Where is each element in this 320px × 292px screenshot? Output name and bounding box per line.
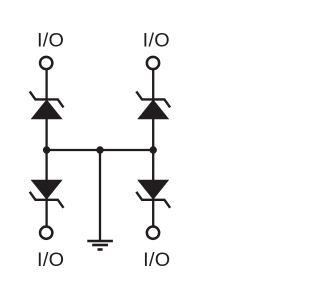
wire center vertical to ground bbox=[99, 150, 101, 241]
wire middle horizontal bus bbox=[47, 149, 154, 151]
zener diode D2 top-right bbox=[136, 91, 170, 119]
ground bbox=[87, 241, 113, 250]
svg-text:I/O: I/O bbox=[143, 29, 170, 51]
junction dot right bbox=[150, 146, 157, 153]
wire bottom-left vertical bbox=[45, 150, 47, 226]
node I/O label bottom-right bbox=[143, 249, 170, 271]
zener diode D4 bottom-right bbox=[136, 180, 170, 208]
wire bottom-right vertical bbox=[152, 150, 154, 226]
svg-text:I/O: I/O bbox=[37, 29, 64, 51]
node I/O label top-right bbox=[143, 29, 170, 51]
wire top-left vertical bbox=[45, 70, 47, 150]
terminal circle top-left bbox=[40, 57, 52, 69]
wire top-right vertical bbox=[152, 70, 154, 150]
node I/O label bottom-left bbox=[37, 249, 64, 271]
junction dot center bbox=[96, 146, 103, 153]
svg-text:I/O: I/O bbox=[143, 249, 170, 271]
terminal circle bottom-left bbox=[40, 227, 52, 239]
zener diode D1 top-left bbox=[30, 91, 64, 119]
zener diode D3 bottom-left bbox=[30, 180, 64, 208]
node I/O label top-left bbox=[37, 29, 64, 51]
terminal circle top-right bbox=[147, 57, 159, 69]
terminal circle bottom-right bbox=[147, 227, 159, 239]
junction dot left bbox=[43, 146, 50, 153]
svg-text:I/O: I/O bbox=[37, 249, 64, 271]
